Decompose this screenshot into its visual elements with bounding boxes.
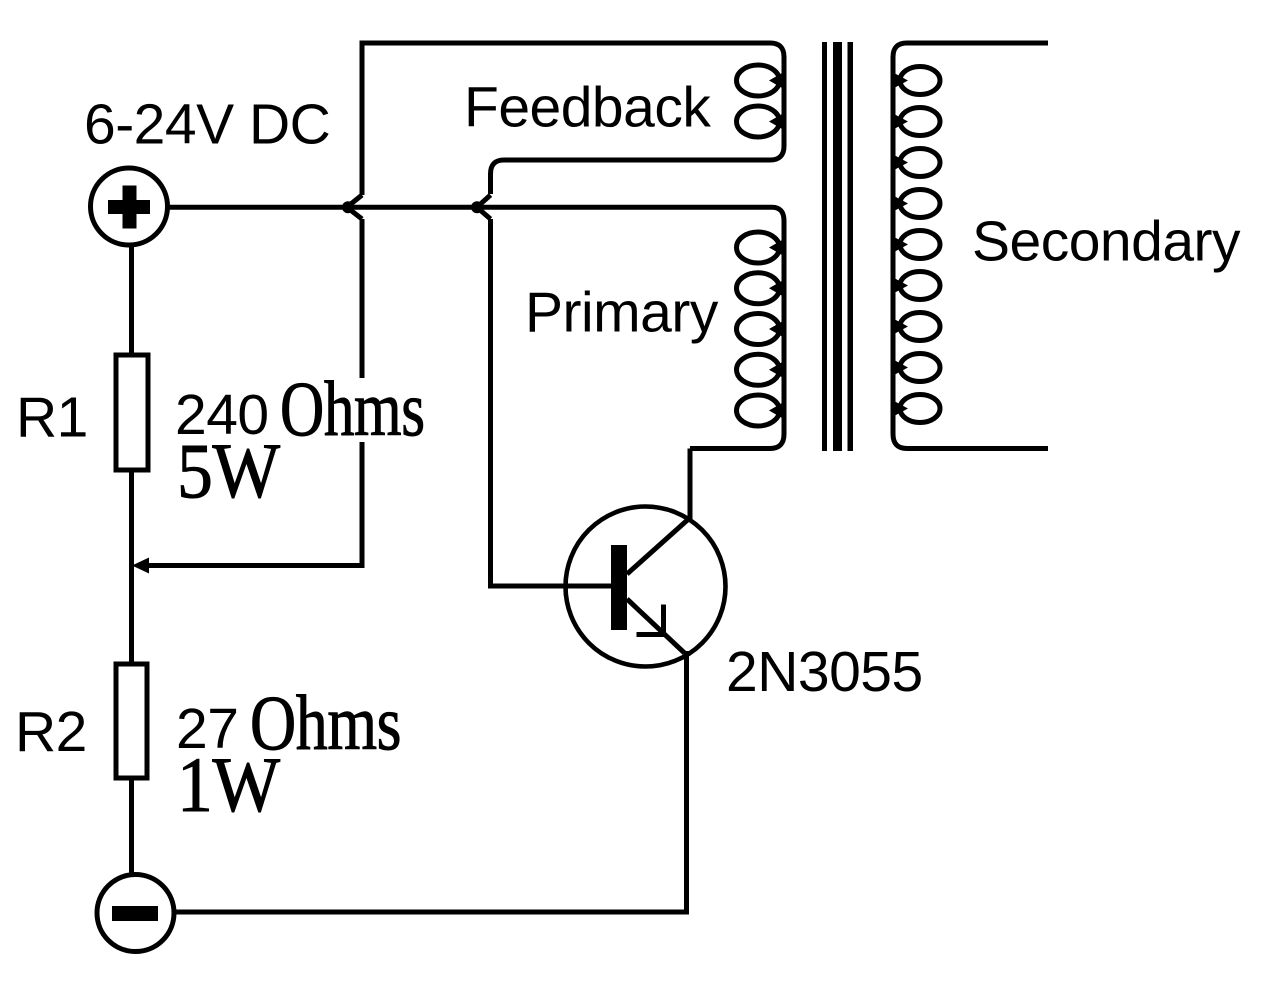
svg-text:Primary: Primary (525, 281, 719, 345)
wire R1 to junction (129, 470, 134, 567)
secondary coil loop 4 (900, 190, 940, 218)
battery negative terminal (97, 875, 174, 952)
wire riser up to feedback top (362, 43, 770, 195)
node junction R1-R2 midpoint (132, 558, 149, 574)
primary coil loop 2 (737, 273, 780, 304)
transistor Q1 2N3055 body circle (566, 507, 726, 667)
transistor base bar (611, 545, 627, 630)
transformer feedback winding spine (491, 43, 785, 194)
wire collector up to primary bottom (688, 449, 693, 520)
secondary coil loop 8 (900, 354, 940, 382)
node B junction pinch lower diagonal (478, 208, 491, 219)
svg-text:R1: R1 (16, 386, 88, 450)
node A junction pinch lower diagonal (348, 208, 363, 219)
transistor collector diagonal (627, 520, 688, 575)
wire R2 down to negative terminal (129, 778, 134, 876)
wire + terminal down to R1 (129, 244, 134, 356)
transformer secondary winding spine (893, 43, 1048, 449)
svg-text:Feedback: Feedback (464, 76, 711, 140)
svg-text:Secondary: Secondary (972, 210, 1241, 274)
transistor emitter arrowhead (637, 605, 664, 635)
wire main horizontal from + to primary (167, 205, 772, 210)
transistor emitter diagonal (627, 599, 685, 653)
wire junction down to R2 (129, 566, 134, 666)
svg-text:1W: 1W (177, 742, 280, 828)
secondary coil loop 5 (900, 231, 940, 259)
node B junction pinch upper diagonal (478, 195, 491, 207)
feedback coil loop 1 (737, 65, 780, 96)
svg-text:6-24V DC: 6-24V DC (84, 93, 330, 157)
resistor R2 (116, 664, 147, 778)
primary coil loop 1 (737, 232, 780, 263)
transformer core line 3 (848, 42, 854, 451)
transformer core line 2 (833, 42, 842, 451)
svg-text:Ohms: Ohms (280, 367, 425, 453)
secondary coil loop 9 (900, 395, 940, 423)
secondary coil loop 1 (900, 67, 940, 95)
wire midpoint horizontal to vertical riser (146, 219, 362, 566)
secondary coil loop 7 (900, 313, 940, 341)
wire node B down to transistor base (491, 219, 612, 586)
node A junction dot (342, 201, 354, 213)
node A junction pinch upper diagonal (348, 195, 363, 207)
feedback coil loop 2 (737, 106, 780, 137)
wire emitter down and left to negative terminal (172, 651, 687, 912)
secondary coil loop 2 (900, 108, 940, 136)
primary coil loop 3 (737, 314, 780, 345)
transformer core line 1 (822, 42, 827, 451)
transformer primary winding spine (690, 207, 784, 448)
secondary coil loop 3 (900, 149, 940, 177)
secondary coil loop 6 (900, 272, 940, 300)
primary coil loop 5 (737, 395, 780, 426)
svg-text:2N3055: 2N3055 (726, 640, 923, 704)
resistor R1 (116, 355, 148, 470)
label 240 Ohms value background (175, 378, 430, 442)
svg-text:5W: 5W (177, 428, 280, 514)
node B junction dot (471, 201, 483, 213)
svg-text:R2: R2 (15, 700, 87, 764)
primary coil loop 4 (737, 354, 780, 385)
battery positive terminal (91, 168, 168, 245)
